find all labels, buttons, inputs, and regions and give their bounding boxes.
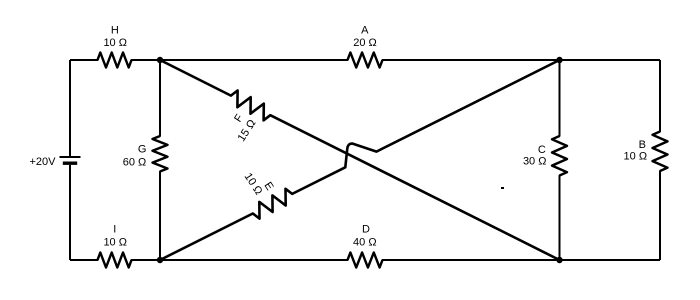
svg-text:10 Ω: 10 Ω (624, 151, 648, 163)
svg-text:C: C (538, 144, 546, 156)
svg-text:30 Ω: 30 Ω (523, 156, 547, 168)
svg-text:A: A (361, 25, 369, 37)
svg-text:20 Ω: 20 Ω (353, 37, 377, 49)
svg-text:+20V: +20V (30, 156, 57, 168)
svg-text:10 Ω: 10 Ω (103, 236, 127, 248)
svg-text:G: G (138, 144, 147, 156)
svg-text:H: H (111, 25, 119, 37)
svg-text:10 Ω: 10 Ω (242, 171, 265, 197)
svg-text:10 Ω: 10 Ω (103, 37, 127, 49)
svg-text:40 Ω: 40 Ω (353, 236, 377, 248)
svg-text:I: I (113, 224, 116, 236)
svg-text:D: D (362, 224, 370, 236)
svg-text:60 Ω: 60 Ω (123, 157, 147, 169)
svg-text:B: B (639, 139, 646, 151)
